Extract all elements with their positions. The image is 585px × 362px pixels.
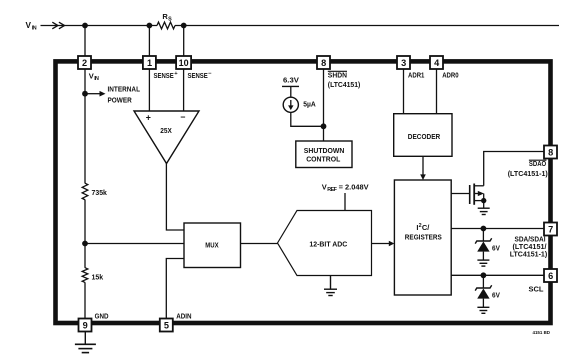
wire pin 3 to decoder	[403, 67, 405, 114]
svg-text:+: +	[146, 113, 151, 123]
wire registers to MOSFET gate	[451, 193, 469, 195]
svg-text:POWER: POWER	[108, 96, 133, 105]
svg-text:REGISTERS: REGISTERS	[405, 233, 442, 242]
wire op-amp output to MUX	[166, 164, 184, 231]
wire pin 8 SHDN down	[323, 67, 325, 141]
ground below ADC	[324, 276, 337, 296]
svg-text:(LTC4151): (LTC4151)	[328, 80, 361, 89]
pin 4 ADR0	[430, 56, 459, 80]
wire ADC to registers with arrow	[372, 241, 395, 247]
svg-text:2: 2	[82, 58, 87, 68]
node junction on rail at pin 1	[147, 23, 153, 29]
svg-text:9: 9	[83, 320, 88, 330]
pin 7 SDA/SDAI	[510, 223, 557, 259]
svg-text:IN: IN	[32, 26, 37, 32]
svg-text:5µA: 5µA	[303, 100, 316, 109]
pin 5 ADIN	[160, 312, 192, 332]
resistor 15k	[82, 268, 104, 283]
ground below SDA zener	[477, 260, 489, 266]
block DECODER	[394, 114, 452, 157]
pin 3 ADR1	[397, 56, 424, 80]
svg-text:4151 BD: 4151 BD	[533, 330, 551, 335]
svg-text:25X: 25X	[160, 126, 172, 135]
node SHDN junction	[321, 123, 327, 129]
svg-text:ADR1: ADR1	[408, 71, 424, 80]
svg-text:C/: C/	[422, 223, 430, 232]
wire MOSFET drain to pin 8	[484, 152, 545, 186]
svg-text:6.3V: 6.3V	[283, 76, 299, 85]
node VREF label	[322, 183, 369, 211]
svg-text:6V: 6V	[492, 243, 500, 252]
pin 10 SENSE-	[176, 56, 212, 80]
svg-text:−: −	[180, 112, 185, 122]
svg-text:8: 8	[548, 148, 553, 158]
resistor 735k	[82, 183, 107, 200]
wire current source to SHDN net	[291, 112, 324, 126]
wire divider tap to MUX	[85, 243, 184, 245]
wire pin2 internal column	[84, 67, 86, 183]
zener diode 6V on SDA	[475, 229, 500, 261]
wire 735k to divider node	[84, 200, 86, 268]
resistor RS	[157, 12, 175, 29]
node SCL junction	[481, 272, 487, 278]
svg-text:INTERNAL: INTERNAL	[108, 85, 141, 94]
svg-text:MUX: MUX	[205, 240, 218, 249]
wire pin 4 to decoder	[436, 67, 438, 114]
svg-text:1: 1	[147, 58, 152, 68]
svg-text:SENSE: SENSE	[188, 71, 208, 80]
current source 5uA with 6.3V supply	[282, 76, 316, 113]
svg-text:SENSE: SENSE	[154, 71, 174, 80]
svg-text:12-BIT ADC: 12-BIT ADC	[309, 240, 347, 249]
wire rail to pin 10	[183, 26, 185, 57]
transistor Q1 open-drain SDAO output	[470, 184, 487, 209]
ground below SCL zener	[477, 307, 489, 313]
wire top rail	[41, 25, 560, 27]
svg-text:15k: 15k	[92, 272, 104, 281]
svg-text:(LTC4151-1): (LTC4151-1)	[508, 169, 549, 178]
svg-text:CONTROL: CONTROL	[306, 154, 340, 163]
IC boundary box LTC4151	[56, 61, 551, 323]
svg-text:= 2.048V: = 2.048V	[339, 183, 369, 192]
svg-text:GND: GND	[95, 312, 109, 321]
node internal power tap	[82, 85, 140, 105]
wire registers to pin 7 SDA	[451, 228, 545, 230]
wire pin10 to op-amp - input	[183, 67, 185, 111]
node SDA junction	[481, 226, 487, 232]
wire 15k to pin 9	[84, 282, 86, 318]
block SHUTDOWN CONTROL	[296, 141, 352, 168]
pin 8 SHDN	[317, 56, 361, 89]
svg-text:SDAO: SDAO	[529, 159, 546, 168]
node junction on rail at pin 10	[181, 23, 187, 29]
node junction on rail at pin 2	[82, 23, 88, 29]
svg-text:V: V	[322, 183, 327, 192]
ground below MOSFET	[478, 208, 490, 214]
svg-text:10: 10	[179, 58, 189, 68]
svg-text:4: 4	[434, 58, 440, 68]
svg-text:735k: 735k	[92, 188, 108, 197]
pin 9 GND	[79, 312, 109, 332]
wire decoder to registers with arrow	[420, 156, 426, 180]
pin 1 SENSE+	[143, 56, 178, 80]
svg-text:6V: 6V	[492, 290, 500, 299]
wire pin1 to op-amp + input	[148, 67, 150, 111]
svg-text:REF: REF	[327, 187, 337, 193]
pin 2 VIN	[78, 56, 99, 82]
svg-text:ADIN: ADIN	[176, 312, 191, 321]
wire pin 5 ADIN to MUX	[166, 259, 184, 319]
node divider tap	[82, 241, 88, 247]
svg-text:S: S	[168, 16, 172, 22]
svg-text:SHDN: SHDN	[328, 71, 347, 80]
svg-text:3: 3	[401, 58, 406, 68]
svg-text:8: 8	[321, 58, 326, 68]
zener diode 6V on SCL	[475, 275, 500, 307]
svg-text:6: 6	[548, 271, 553, 281]
block 12-BIT ADC	[278, 211, 372, 276]
pin 8 SDAO	[508, 146, 557, 178]
node VIN (input label with off-page chevron)	[26, 21, 65, 32]
svg-text:V: V	[26, 21, 32, 30]
svg-text:7: 7	[548, 225, 553, 235]
wire registers to pin 6 SCL	[451, 274, 545, 276]
wire rail to pin 2	[84, 26, 86, 57]
svg-text:SCL: SCL	[529, 285, 544, 294]
svg-text:DECODER: DECODER	[408, 132, 441, 141]
svg-text:V: V	[89, 71, 94, 80]
pin 6 SCL	[529, 269, 558, 294]
block I2C REGISTERS	[394, 180, 451, 295]
svg-text:ADR0: ADR0	[442, 71, 458, 80]
svg-text:IN: IN	[94, 76, 99, 82]
svg-text:5: 5	[164, 320, 169, 330]
svg-text:LTC4151-1): LTC4151-1)	[510, 250, 548, 259]
wire rail to pin 1	[148, 26, 150, 57]
op-amp 25X current sense amplifier	[134, 111, 199, 164]
block MUX	[184, 223, 241, 268]
wire MUX to ADC	[241, 243, 279, 245]
ground at pin 9	[75, 331, 96, 352]
